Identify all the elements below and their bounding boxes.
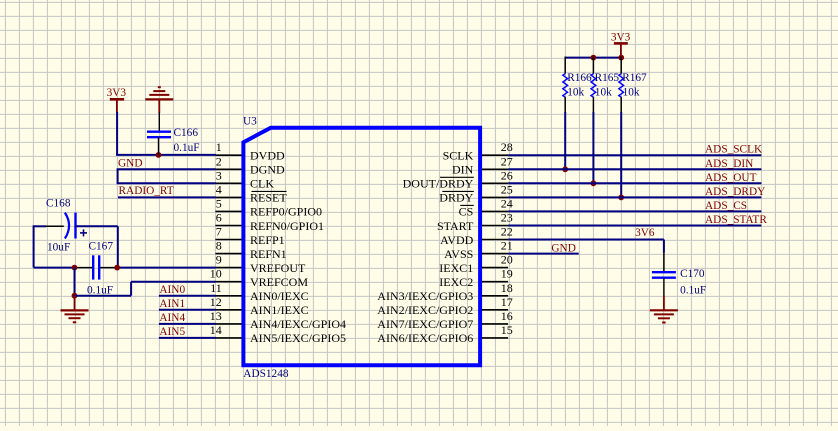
svg-text:R165: R165 <box>595 72 620 84</box>
wire left vertical <box>33 225 35 267</box>
svg-text:REFP1: REFP1 <box>250 233 285 247</box>
pin 16 stub <box>482 323 508 325</box>
svg-text:AIN0/IEXC: AIN0/IEXC <box>250 289 309 303</box>
svg-text:10k: 10k <box>595 86 612 98</box>
C168 left lead <box>46 225 64 227</box>
svg-text:10: 10 <box>210 267 222 281</box>
resistor R165 <box>592 57 594 74</box>
svg-text:VREFOUT: VREFOUT <box>250 261 306 275</box>
C167 right lead <box>100 267 117 269</box>
svg-text:21: 21 <box>501 239 513 253</box>
overline DRDY part of pin26 DOUT/DRDY <box>440 176 474 178</box>
pin 6 stub <box>215 225 241 227</box>
C167 left lead <box>75 267 93 269</box>
svg-text:AIN7/IEXC/GPIO7: AIN7/IEXC/GPIO7 <box>377 317 473 331</box>
svg-text:24: 24 <box>501 196 513 210</box>
svg-text:REFP0/GPIO0: REFP0/GPIO0 <box>250 205 322 219</box>
svg-text:DIN: DIN <box>452 163 474 177</box>
wire R165 to pin row <box>592 112 594 183</box>
svg-text:AIN1: AIN1 <box>159 298 185 310</box>
junction on pin1 wire at C166 <box>156 152 162 158</box>
svg-text:27: 27 <box>501 154 513 168</box>
svg-text:REFN1: REFN1 <box>250 247 287 261</box>
svg-text:GND: GND <box>551 243 575 255</box>
junction R167 bottom <box>618 195 624 201</box>
pin 28 stub <box>482 154 508 156</box>
svg-text:ADS_STATR: ADS_STATR <box>705 214 767 226</box>
svg-text:CLK: CLK <box>250 177 274 191</box>
pin 13 stub <box>215 323 241 325</box>
svg-text:C166: C166 <box>174 127 199 139</box>
svg-text:AIN2/IEXC/GPIO2: AIN2/IEXC/GPIO2 <box>377 303 473 317</box>
svg-text:10uF: 10uF <box>47 241 70 253</box>
wire pin26 to ADS_OUT <box>508 182 761 184</box>
resistor R167 <box>620 57 622 74</box>
pin 4 stub <box>215 196 241 198</box>
svg-text:IEXC1: IEXC1 <box>439 261 473 275</box>
wire pin13 AIN4 <box>159 323 216 325</box>
svg-text:RESET: RESET <box>250 191 287 205</box>
pin 17 stub <box>482 309 508 311</box>
svg-text:AVDD: AVDD <box>440 233 473 247</box>
ground symbol (top, above C166) <box>158 86 161 88</box>
wire pin14 AIN5 <box>159 337 216 339</box>
wire pin1 DVDD horizontal <box>116 154 216 156</box>
wire C166 to pin1 wire <box>158 137 160 155</box>
pin 26 stub <box>482 182 508 184</box>
junction rail R167/3V3 <box>618 55 624 61</box>
power symbol 3V3 (left) <box>110 98 124 101</box>
junction left of C167 <box>72 265 78 271</box>
svg-text:1: 1 <box>216 140 222 154</box>
wire pin23 to ADS_STATR <box>508 225 761 227</box>
svg-text:ADS_SCLK: ADS_SCLK <box>705 144 763 156</box>
svg-text:0.1uF: 0.1uF <box>87 284 113 296</box>
svg-text:25: 25 <box>501 182 513 196</box>
wire pin28 to ADS_SCLK <box>508 154 761 156</box>
svg-text:11: 11 <box>210 281 222 295</box>
svg-text:7: 7 <box>216 225 222 239</box>
svg-text:DVDD: DVDD <box>250 149 285 163</box>
overline CS pin24 <box>460 204 474 206</box>
wire pin3 CLK <box>117 182 216 184</box>
pin 8 stub <box>215 253 241 255</box>
junction rail R165 <box>591 55 597 61</box>
svg-text:14: 14 <box>210 323 222 337</box>
svg-text:19: 19 <box>501 267 513 281</box>
ground symbol (lower left) <box>74 296 76 311</box>
svg-text:C167: C167 <box>89 241 114 253</box>
svg-text:CS: CS <box>459 205 474 219</box>
wire pin2-pin3 vertical <box>117 169 119 183</box>
svg-text:5: 5 <box>216 196 222 210</box>
svg-text:START: START <box>437 219 474 233</box>
junction R165 bottom <box>591 180 597 186</box>
svg-text:ADS_CS: ADS_CS <box>705 200 747 212</box>
svg-text:AIN5: AIN5 <box>159 326 185 338</box>
pin 14 stub <box>215 337 241 339</box>
svg-text:AIN1/IEXC: AIN1/IEXC <box>250 303 309 317</box>
wire C167 to pin9 VREFOUT <box>117 267 216 269</box>
wire pin4 RESET (RADIO_RT) <box>118 196 216 198</box>
wire pin2 DGND <box>117 168 216 170</box>
wire C168 top rail left <box>34 225 46 227</box>
wire pin25 to ADS_DRDY <box>508 196 761 198</box>
svg-text:4: 4 <box>216 182 222 196</box>
svg-text:3: 3 <box>216 168 222 182</box>
svg-text:AIN4/IEXC/GPIO4: AIN4/IEXC/GPIO4 <box>250 317 346 331</box>
svg-text:23: 23 <box>501 211 513 225</box>
junction at ground node <box>72 293 78 299</box>
wire pin24 to ADS_CS <box>508 210 761 212</box>
wire resistor top rail <box>565 57 621 59</box>
svg-text:10k: 10k <box>567 86 584 98</box>
svg-text:REFN0/GPIO1: REFN0/GPIO1 <box>250 219 324 233</box>
pin 15 stub <box>482 337 508 339</box>
ground symbol (right, below C170) <box>663 296 665 311</box>
svg-text:9: 9 <box>216 253 222 267</box>
svg-text:R166: R166 <box>567 72 592 84</box>
svg-text:RADIO_RT: RADIO_RT <box>119 185 174 197</box>
wire bottom rail left <box>34 267 75 269</box>
svg-text:ADS_DIN: ADS_DIN <box>705 158 753 170</box>
pin 5 stub <box>215 210 241 212</box>
svg-text:DRDY: DRDY <box>439 191 473 205</box>
svg-text:12: 12 <box>210 295 222 309</box>
svg-text:17: 17 <box>501 295 513 309</box>
capacitor C170 <box>652 271 676 273</box>
pin 2 stub <box>215 168 241 170</box>
svg-text:0.1uF: 0.1uF <box>680 285 706 297</box>
svg-text:18: 18 <box>501 281 513 295</box>
pin 11 stub <box>215 295 241 297</box>
wire R167 to pin row <box>620 112 622 197</box>
svg-text:AIN4: AIN4 <box>159 312 185 324</box>
junction R166 bottom <box>562 166 568 172</box>
overline DRDY pin25 <box>442 190 474 192</box>
wire pin27 to ADS_DIN <box>508 168 761 170</box>
svg-text:AIN3/IEXC/GPIO3: AIN3/IEXC/GPIO3 <box>377 289 473 303</box>
svg-text:SCLK: SCLK <box>443 149 474 163</box>
svg-text:3V3: 3V3 <box>107 87 127 99</box>
capacitor C166 <box>147 130 171 132</box>
pin 18 stub <box>482 295 508 297</box>
svg-text:0.1uF: 0.1uF <box>174 142 200 154</box>
pin 22 stub <box>482 239 508 241</box>
wire ground jog vertical <box>130 282 132 296</box>
svg-text:AVSS: AVSS <box>444 247 473 261</box>
wire C168 top rail right <box>76 225 118 227</box>
svg-text:16: 16 <box>501 309 513 323</box>
wire C170 to ground <box>663 278 665 297</box>
C168 plus sign <box>80 232 87 234</box>
wire down to ground junction <box>74 268 76 296</box>
wire pin21 AVSS <box>508 253 579 255</box>
svg-text:ADS_OUT: ADS_OUT <box>705 172 757 184</box>
wire pin22 AVDD horizontal <box>508 239 664 241</box>
wire pin10 VREFCOM <box>131 281 216 283</box>
svg-text:DGND: DGND <box>250 163 285 177</box>
svg-text:AIN6/IEXC/GPIO6: AIN6/IEXC/GPIO6 <box>377 331 473 345</box>
pin 3 stub <box>215 182 241 184</box>
pin 12 stub <box>215 309 241 311</box>
svg-text:20: 20 <box>501 253 513 267</box>
svg-text:3V3: 3V3 <box>611 31 631 43</box>
capacitor C168 (polarized) <box>65 213 69 239</box>
svg-text:10k: 10k <box>623 86 640 98</box>
svg-text:28: 28 <box>501 140 513 154</box>
svg-text:R167: R167 <box>622 72 647 84</box>
wire ground jog horizontal <box>75 295 132 297</box>
pin 19 stub <box>482 281 508 283</box>
pin 21 stub <box>482 253 508 255</box>
pin 25 stub <box>482 196 508 198</box>
power symbol 3V3 (right) <box>614 42 628 45</box>
wire pin12 AIN1 <box>159 309 216 311</box>
svg-text:13: 13 <box>210 309 222 323</box>
pin 9 stub <box>215 267 241 269</box>
svg-text:3V6: 3V6 <box>635 227 655 239</box>
svg-text:DOUT/DRDY: DOUT/DRDY <box>403 177 474 191</box>
pin 24 stub <box>482 210 508 212</box>
svg-text:2: 2 <box>216 154 222 168</box>
svg-text:GND: GND <box>118 157 142 169</box>
resistor R166 <box>564 57 566 74</box>
svg-text:VREFCOM: VREFCOM <box>250 275 308 289</box>
pin 20 stub <box>482 267 508 269</box>
junction right of C167 <box>114 265 120 271</box>
svg-text:C170: C170 <box>680 268 705 280</box>
wire 3V6 down to C170 <box>663 240 665 253</box>
pin 10 stub <box>215 281 241 283</box>
svg-text:26: 26 <box>501 168 513 182</box>
IC U3 ADS1248 body <box>243 128 480 366</box>
svg-text:AIN5/IEXC/GPIO5: AIN5/IEXC/GPIO5 <box>250 331 346 345</box>
wire right vertical to pin9 rail <box>117 226 119 267</box>
overline RESET pin4 <box>252 190 287 192</box>
svg-text:ADS1248: ADS1248 <box>243 368 289 380</box>
svg-text:6: 6 <box>216 211 222 225</box>
svg-text:C168: C168 <box>46 198 71 210</box>
wire R166 to pin row <box>564 112 566 169</box>
wire ground to C166 <box>158 112 160 131</box>
svg-text:AIN0: AIN0 <box>159 284 185 296</box>
wire pin11 AIN0 <box>159 295 216 297</box>
svg-text:ADS_DRDY: ADS_DRDY <box>705 186 765 198</box>
svg-text:U3: U3 <box>243 115 257 127</box>
pin 1 stub <box>215 154 241 156</box>
svg-text:22: 22 <box>501 225 513 239</box>
pin 23 stub <box>482 225 508 227</box>
capacitor C167 <box>92 255 94 279</box>
svg-text:IEXC2: IEXC2 <box>439 275 473 289</box>
wire 3V3 to pin1 vertical <box>116 112 118 155</box>
pin 27 stub <box>482 168 508 170</box>
svg-text:8: 8 <box>216 239 222 253</box>
svg-text:15: 15 <box>501 323 513 337</box>
pin 7 stub <box>215 239 241 241</box>
